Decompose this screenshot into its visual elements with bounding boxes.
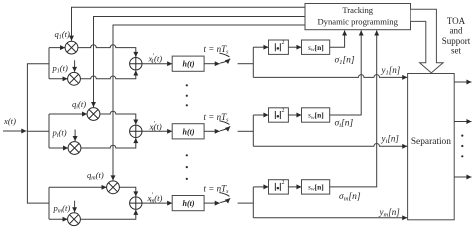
svg-text:pi(t): pi(t) <box>52 127 67 139</box>
wire to squarer row i <box>253 114 268 116</box>
svg-text:qi(t): qi(t) <box>72 99 86 111</box>
svg-text:2: 2 <box>282 108 285 114</box>
input arrow x(t) <box>3 130 26 132</box>
svg-text:and: and <box>450 26 463 36</box>
svg-text:sw[n]: sw[n] <box>308 43 324 53</box>
sampler switch t=nT row m <box>204 193 253 204</box>
svg-text:t = nTs: t = nTs <box>204 184 230 196</box>
svg-text:x(t): x(t) <box>3 116 16 126</box>
feedback wire qm(t) from tracking <box>113 25 305 180</box>
ellipsis dots between row i and row m <box>186 154 188 156</box>
separation output arrow 1 <box>454 81 471 83</box>
wire adder to filter h(t) row i <box>142 130 172 132</box>
svg-text:x′i(t): x′i(t) <box>149 120 162 133</box>
block s_w[n] row 1 <box>302 40 330 54</box>
svg-text:h(t): h(t) <box>183 199 195 208</box>
stub arrow pm(t) <box>74 201 76 213</box>
branch node row i <box>252 115 254 146</box>
wire sigma_i up to tracking <box>330 30 362 115</box>
svg-text:x′m(t): x′m(t) <box>147 192 163 205</box>
wire into multiplier qm <box>49 186 107 188</box>
tracking dynamic programming block <box>305 4 411 30</box>
wire into multiplier pi <box>49 147 68 149</box>
svg-text:Support: Support <box>442 36 471 46</box>
multiplier Qi <box>87 108 100 121</box>
wire y_1[n] to separation <box>253 75 407 78</box>
squarer block |.|^2 row 1 <box>269 40 289 54</box>
row 1 distribution bracket <box>48 48 50 79</box>
wire into multiplier qi <box>49 113 87 115</box>
svg-text:sw[n]: sw[n] <box>308 183 324 193</box>
svg-text:yi[n]: yi[n] <box>381 134 400 146</box>
svg-text:p1(t): p1(t) <box>52 63 69 75</box>
block s_w[n] row i <box>302 108 330 122</box>
stub arrow pi(t) <box>74 130 76 142</box>
sampler switch t=nT row i <box>204 121 253 132</box>
block s_w[n] row m <box>302 180 330 194</box>
wire sigma_1 up to tracking <box>330 30 345 47</box>
svg-text:Tracking: Tracking <box>342 5 373 15</box>
svg-text:t = nTs: t = nTs <box>204 44 230 56</box>
svg-text:ym[n]: ym[n] <box>379 207 401 219</box>
adder row i <box>130 125 142 137</box>
squarer block |.|^2 row m <box>269 180 289 194</box>
svg-text:y1[n]: y1[n] <box>381 65 401 77</box>
wire q1 output to adder <box>78 45 136 57</box>
sampler switch t=nT row 1 <box>204 53 253 64</box>
row m distribution bracket <box>48 187 50 219</box>
ellipsis dots between row 1 and row i <box>186 84 188 86</box>
separation block <box>408 74 455 220</box>
svg-text:set: set <box>451 46 461 56</box>
separation output arrow 2 <box>454 121 471 123</box>
multiplier Qm <box>107 181 120 194</box>
svg-text:t = nTs: t = nTs <box>204 112 230 124</box>
wire squarer to s_w block row m <box>288 186 301 188</box>
wire pi output to adder <box>81 138 136 148</box>
wire sigma_m up to tracking <box>330 30 377 187</box>
svg-text:q1(t): q1(t) <box>55 29 71 41</box>
wire bus to row i bracket <box>27 130 49 132</box>
svg-text:h(t): h(t) <box>183 127 195 136</box>
multiplier Pm <box>68 213 81 226</box>
svg-text:TOA: TOA <box>447 16 466 26</box>
wire to squarer row 1 <box>253 46 268 48</box>
wire adder to filter h(t) row 1 <box>142 63 172 65</box>
svg-text:σm[n]: σm[n] <box>339 192 361 203</box>
svg-text:Dynamic programming: Dynamic programming <box>317 17 398 27</box>
input bus <box>27 64 49 203</box>
wire squarer to s_w block row i <box>288 114 301 116</box>
feedback wire q1(t) from tracking <box>72 7 306 40</box>
ellipsis dots separation outputs <box>461 135 463 137</box>
filter block h(t) row 1 <box>172 56 204 71</box>
hollow arrow TOA and support set <box>411 9 443 73</box>
wire pm output to adder <box>80 210 135 219</box>
svg-text:x′1(t): x′1(t) <box>148 52 163 65</box>
wire into multiplier pm <box>49 218 68 220</box>
adder row m <box>130 197 142 209</box>
row i distribution bracket <box>48 114 50 148</box>
wire p1 output to adder <box>80 70 135 78</box>
wire into multiplier q1 <box>49 47 65 49</box>
svg-text:pm(t): pm(t) <box>53 203 71 215</box>
wire into multiplier p1 <box>49 78 68 80</box>
svg-text:sw[n]: sw[n] <box>308 111 324 121</box>
svg-text:qm(t): qm(t) <box>87 170 104 182</box>
squarer block |.|^2 row i <box>269 108 289 122</box>
adder row 1 <box>130 58 142 70</box>
stub arrow p1(t) <box>74 60 76 72</box>
filter block h(t) row i <box>172 124 204 139</box>
multiplier Q1 <box>65 41 78 54</box>
svg-text:σi[n]: σi[n] <box>335 119 354 130</box>
multiplier Pi <box>68 142 81 155</box>
svg-text:σ1[n]: σ1[n] <box>335 55 355 66</box>
svg-text:Separation: Separation <box>411 137 451 147</box>
separation output arrow 3 <box>454 176 471 178</box>
wire y_i[n] to separation <box>253 144 407 147</box>
wire qi output to adder <box>100 111 136 124</box>
feedback wire qi(t) from tracking <box>94 17 306 108</box>
svg-text:2: 2 <box>282 40 285 46</box>
branch node row 1 <box>252 47 254 77</box>
svg-text:2: 2 <box>282 180 285 186</box>
filter block h(t) row m <box>172 196 204 211</box>
wire qm output to adder <box>119 187 135 196</box>
wire to squarer row m <box>253 186 268 188</box>
wire y_m[n] to separation <box>253 217 407 219</box>
wire squarer to s_w block row 1 <box>288 46 301 48</box>
multiplier P1 <box>68 72 81 85</box>
svg-text:h(t): h(t) <box>183 60 195 69</box>
branch node row m <box>252 187 254 218</box>
wire adder to filter h(t) row m <box>142 202 172 204</box>
label TOA and Support set <box>442 16 471 56</box>
